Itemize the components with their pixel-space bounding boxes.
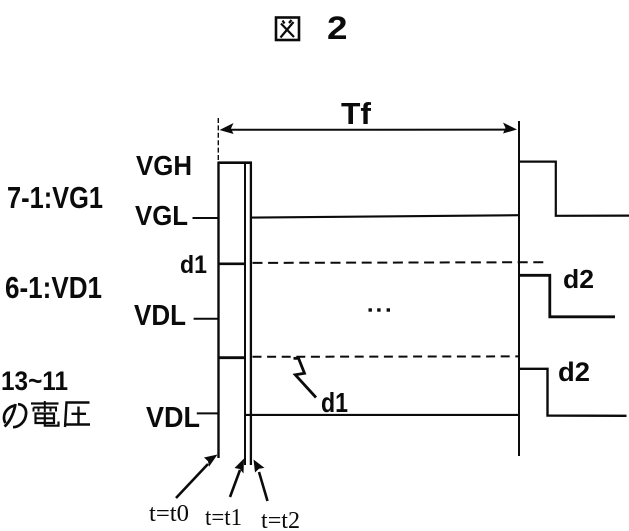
wire VDL bottom tick: [197, 412, 219, 414]
wire VD1 right step d2: [519, 275, 615, 317]
svg-text:VDL: VDL: [134, 300, 186, 332]
wire VG1 pulse top VGH: [218, 161, 253, 164]
right frame reference vertical: [518, 121, 520, 456]
svg-text:t=t2: t=t2: [261, 508, 300, 531]
wire VG1 right pulse: [519, 162, 629, 216]
svg-text:VGH: VGH: [136, 150, 192, 181]
svg-text:d1: d1: [180, 251, 207, 279]
svg-text:13~11: 13~11: [1, 366, 68, 396]
svg-text:2: 2: [327, 10, 348, 46]
wire pixel at VDL level: [244, 414, 518, 416]
svg-text:6-1:VD1: 6-1:VD1: [5, 270, 102, 305]
label の: [4, 404, 26, 427]
svg-text:VDL: VDL: [146, 402, 200, 434]
wire VG1 at VGL level: [251, 215, 518, 217]
ellipsis dots: [369, 308, 391, 311]
wire pixel right step d2: [519, 369, 627, 416]
wire VD1 step at d1: [218, 262, 245, 265]
svg-text:7-1:VG1: 7-1:VG1: [7, 180, 103, 215]
node t2 reference vertical: [250, 163, 252, 466]
label 圧: [65, 403, 90, 428]
title 図: [276, 18, 299, 41]
svg-text:t=t0: t=t0: [149, 501, 189, 527]
wire pixel dashed d1 level: [253, 355, 519, 357]
wire VGL tick: [193, 217, 219, 219]
wire VD1 dashed d1 level: [253, 261, 545, 264]
svg-text:d2: d2: [558, 357, 590, 387]
wire VDL middle tick: [194, 318, 218, 320]
arrow to t0: [176, 455, 218, 499]
arrow to t2: [254, 460, 268, 502]
squiggle leader arrow to d1: [294, 358, 317, 397]
svg-text:d2: d2: [563, 264, 594, 294]
arrow to t1: [230, 459, 244, 498]
Tf arrow: [220, 123, 518, 135]
wire pixel step level: [218, 356, 246, 359]
svg-text:VGL: VGL: [135, 200, 188, 231]
label 電: [31, 401, 59, 426]
svg-text:t=t1: t=t1: [205, 505, 242, 531]
svg-text:d1: d1: [321, 387, 348, 418]
node t1 reference vertical: [244, 164, 246, 465]
node t0 reference vertical: [217, 118, 219, 458]
svg-text:Tf: Tf: [341, 96, 372, 131]
